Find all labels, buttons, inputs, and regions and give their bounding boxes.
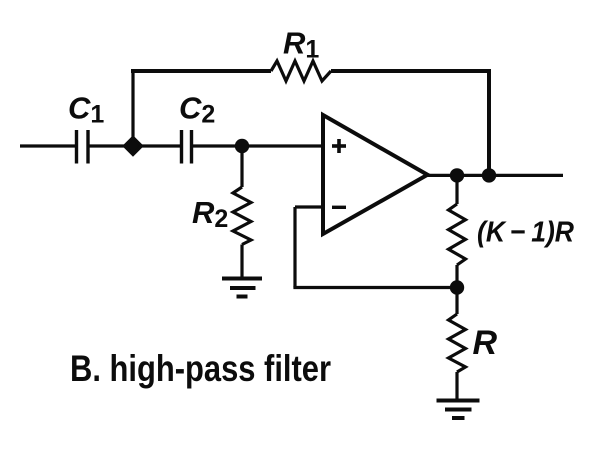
node D (output / top feedback junction) <box>482 168 496 182</box>
capacitor C1 <box>77 130 89 164</box>
wire: feedback vertical left <box>293 207 296 288</box>
op-amp - input symbol <box>332 206 346 209</box>
wire: input lead <box>20 144 75 147</box>
wire: top feedback right segment <box>331 69 489 73</box>
resistor R1 <box>271 61 331 81</box>
capacitor C2 <box>182 130 192 164</box>
ground (under R) <box>437 401 480 419</box>
wire: node E down to R <box>455 288 458 315</box>
wire: op-amp output <box>427 174 563 177</box>
svg-text:B. high-pass filter: B. high-pass filter <box>70 348 331 389</box>
svg-text:(K − 1)R: (K − 1)R <box>477 217 574 249</box>
op-amp U1 <box>323 115 428 234</box>
wire: node A up to feedback line <box>131 71 134 146</box>
resistor R <box>449 314 466 372</box>
resistor R2 <box>233 187 251 245</box>
wire: top feedback left segment <box>131 69 271 73</box>
wire: node C down to (K-1)R <box>455 175 458 204</box>
node C (output / (K-1)R junction) <box>450 168 464 182</box>
node B (junction C2/R2) <box>235 139 249 153</box>
wire: right vertical down to output node <box>487 69 491 175</box>
ground (under R2) <box>222 279 262 297</box>
resistor (K-1)R <box>449 204 466 265</box>
wire: feedback bottom horizontal <box>293 286 457 289</box>
op-amp + input symbol <box>332 139 346 153</box>
wire: node B down to R2 <box>240 146 243 187</box>
svg-text:R: R <box>473 324 498 362</box>
wire: inverting input lead <box>295 205 323 208</box>
node A (junction C1/C2/feedback) <box>125 138 142 155</box>
wire: C2 to op-amp + input <box>193 144 323 147</box>
wire: R to ground <box>455 372 458 401</box>
wire: (K-1)R to node E <box>455 265 458 288</box>
wire: R2 to ground <box>240 245 243 279</box>
wire: C1 to C2 through node A <box>90 144 181 147</box>
node E (feedback junction) <box>450 280 464 294</box>
